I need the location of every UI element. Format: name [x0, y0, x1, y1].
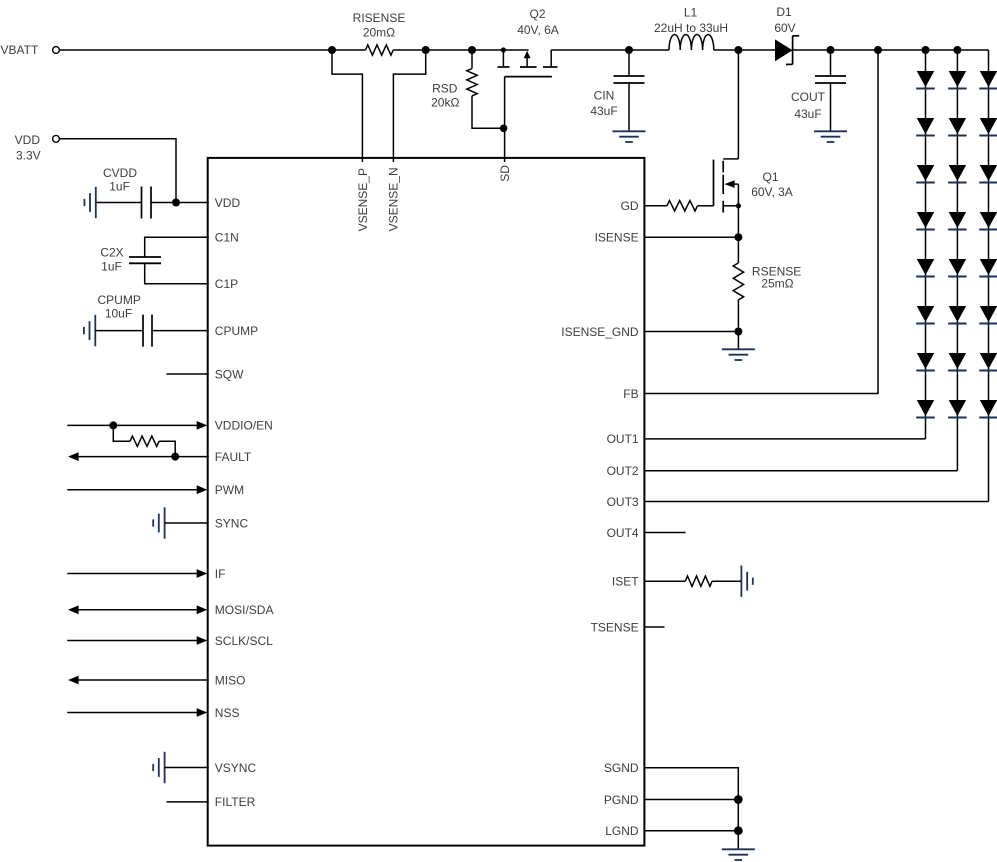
svg-text:FAULT: FAULT: [215, 450, 252, 464]
svg-text:VDD: VDD: [215, 196, 241, 210]
svg-text:22uH to 33uH: 22uH to 33uH: [654, 21, 728, 35]
svg-text:CIN: CIN: [594, 89, 615, 103]
svg-text:SGND: SGND: [604, 761, 639, 775]
svg-text:ISENSE: ISENSE: [595, 231, 639, 245]
svg-text:OUT4: OUT4: [607, 526, 639, 540]
svg-text:FB: FB: [623, 387, 638, 401]
svg-text:IF: IF: [215, 567, 226, 581]
svg-text:GD: GD: [621, 199, 639, 213]
svg-text:LGND: LGND: [605, 824, 639, 838]
svg-text:L1: L1: [684, 5, 698, 19]
svg-text:1uF: 1uF: [101, 260, 122, 274]
svg-text:20kΩ: 20kΩ: [431, 96, 459, 110]
svg-text:PGND: PGND: [604, 793, 639, 807]
svg-text:PWM: PWM: [215, 483, 244, 497]
svg-text:C2X: C2X: [100, 246, 123, 260]
svg-text:TSENSE: TSENSE: [591, 620, 639, 634]
svg-text:RISENSE: RISENSE: [353, 11, 406, 25]
svg-text:43uF: 43uF: [590, 104, 617, 118]
svg-text:60V: 60V: [774, 21, 795, 35]
svg-text:VBATT: VBATT: [1, 43, 39, 57]
svg-text:SYNC: SYNC: [215, 516, 249, 530]
svg-text:1uF: 1uF: [109, 180, 130, 194]
svg-text:60V, 3A: 60V, 3A: [751, 185, 793, 199]
svg-text:C1N: C1N: [215, 231, 239, 245]
svg-text:VSYNC: VSYNC: [215, 761, 257, 775]
svg-text:3.3V: 3.3V: [16, 148, 41, 162]
svg-text:NSS: NSS: [215, 706, 240, 720]
svg-text:43uF: 43uF: [794, 107, 821, 121]
svg-text:10uF: 10uF: [105, 307, 132, 321]
svg-text:D1: D1: [776, 5, 792, 19]
svg-text:Q1: Q1: [762, 170, 778, 184]
svg-text:C1P: C1P: [215, 277, 238, 291]
svg-text:VDDIO/EN: VDDIO/EN: [215, 419, 273, 433]
svg-text:CPUMP: CPUMP: [215, 324, 258, 338]
svg-text:OUT3: OUT3: [607, 495, 639, 509]
svg-text:ISET: ISET: [612, 575, 639, 589]
svg-text:SD: SD: [498, 165, 512, 182]
svg-text:25mΩ: 25mΩ: [761, 277, 793, 291]
svg-text:RSD: RSD: [432, 81, 458, 95]
svg-text:Q2: Q2: [529, 7, 545, 21]
svg-text:OUT2: OUT2: [607, 464, 639, 478]
svg-text:MOSI/SDA: MOSI/SDA: [215, 603, 274, 617]
svg-text:SCLK/SCL: SCLK/SCL: [215, 634, 273, 648]
svg-text:MISO: MISO: [215, 673, 246, 687]
svg-text:CPUMP: CPUMP: [98, 293, 141, 307]
svg-text:VDD: VDD: [15, 133, 41, 147]
svg-text:20mΩ: 20mΩ: [363, 25, 395, 39]
svg-text:FILTER: FILTER: [215, 795, 256, 809]
svg-text:SQW: SQW: [215, 367, 244, 381]
svg-text:CVDD: CVDD: [103, 166, 137, 180]
svg-text:OUT1: OUT1: [607, 432, 639, 446]
svg-text:40V, 6A: 40V, 6A: [517, 23, 559, 37]
svg-text:COUT: COUT: [791, 90, 826, 104]
svg-text:VSENSE_N: VSENSE_N: [387, 167, 401, 231]
svg-text:ISENSE_GND: ISENSE_GND: [561, 325, 639, 339]
svg-text:VSENSE_P: VSENSE_P: [356, 168, 370, 231]
